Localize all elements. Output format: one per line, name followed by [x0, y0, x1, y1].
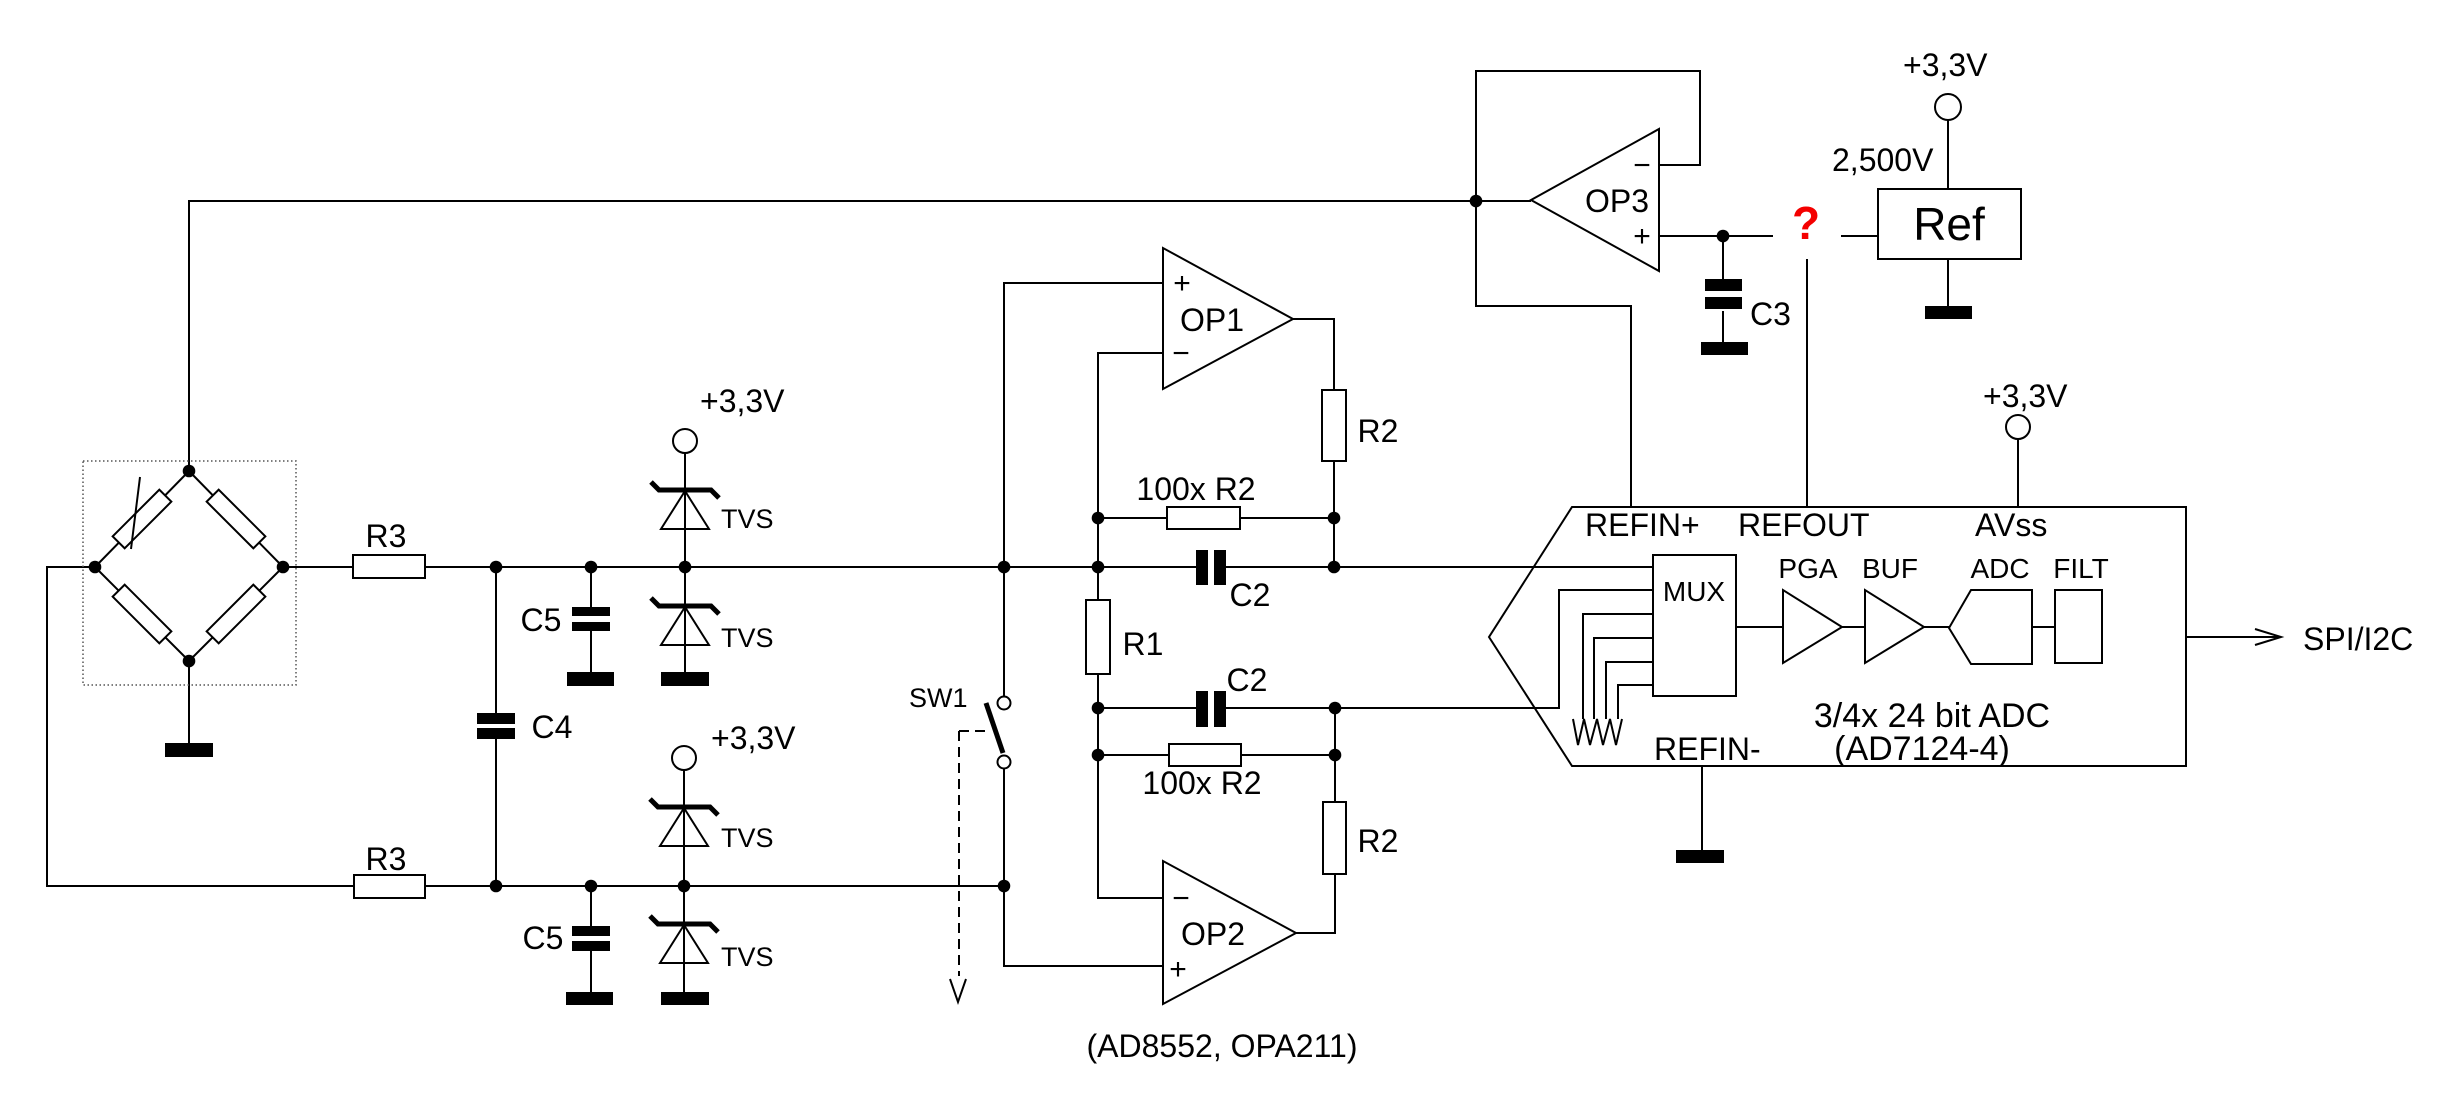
ground C5 lower — [566, 992, 613, 1005]
op-amp OP2 — [1163, 861, 1296, 1004]
wire lower C2 left lead — [1098, 707, 1198, 709]
wire C3 top lead — [1722, 236, 1724, 279]
box FILT — [2055, 590, 2102, 663]
wire C5 upper top lead — [590, 567, 592, 607]
ground TVS upper — [661, 672, 709, 686]
wire REFOUT vertical — [1806, 259, 1808, 507]
wire TVS lower chain vertical — [683, 770, 685, 993]
wire OP3 noninverting input to question node — [1659, 235, 1773, 237]
wire OP3 output to bridge top (net EXC+) — [189, 201, 1531, 471]
svg-text:100x R2: 100x R2 — [1136, 471, 1255, 507]
switch SW1 dashed control line — [958, 731, 960, 976]
svg-text:C5: C5 — [523, 920, 564, 956]
svg-text:(AD8552, OPA211): (AD8552, OPA211) — [1087, 1028, 1358, 1064]
svg-text:TVS: TVS — [721, 504, 774, 534]
strain gauge variable stroke — [131, 477, 140, 549]
bridge resistor top-right — [207, 490, 266, 549]
svg-text:TVS: TVS — [721, 823, 774, 853]
wire question node to Ref box — [1841, 235, 1878, 237]
svg-text:ADC: ADC — [1970, 553, 2029, 584]
wire R2 upper to top signal line — [1333, 461, 1335, 567]
junction R2 upper line — [1328, 561, 1341, 574]
wire OP1 output to R2 — [1293, 319, 1334, 390]
node bridge right — [277, 561, 290, 574]
wire ADC to FILT — [2033, 626, 2055, 628]
resistor R3 bottom — [354, 875, 425, 898]
junction C3 node — [1717, 230, 1730, 243]
capacitor C5 upper plates — [572, 607, 610, 616]
svg-text:R3: R3 — [366, 518, 407, 554]
svg-text:REFIN-: REFIN- — [1654, 731, 1761, 767]
svg-text:R2: R2 — [1358, 413, 1399, 449]
svg-text:SPI/I2C: SPI/I2C — [2303, 621, 2413, 657]
wire MUX input 6 — [1618, 685, 1653, 719]
junction lower C2 right — [1329, 702, 1342, 715]
junction TVS lower — [678, 880, 691, 893]
node bridge bottom — [183, 655, 196, 668]
svg-text:+3,3V: +3,3V — [711, 720, 796, 756]
svg-text:FILT: FILT — [2053, 553, 2108, 584]
svg-text:TVS: TVS — [721, 623, 774, 653]
svg-text:REFOUT: REFOUT — [1738, 507, 1870, 543]
junction 100xR2 upper left — [1092, 512, 1105, 525]
resistor R2 lower — [1323, 802, 1346, 874]
junction TVS upper — [679, 561, 692, 574]
switch SW1 blade — [986, 703, 1003, 753]
svg-text:OP1: OP1 — [1180, 302, 1244, 338]
junction C4 top — [490, 561, 503, 574]
capacitor C5 lower plates — [572, 926, 610, 936]
unused MUX input squiggle terminators — [1573, 719, 1622, 745]
svg-text:(AD7124-4): (AD7124-4) — [1834, 730, 2010, 768]
wire R1 bottom to OP2 inverting input — [1098, 674, 1163, 898]
svg-text:C4: C4 — [532, 709, 573, 745]
svg-text:MUX: MUX — [1663, 576, 1726, 607]
wire PGA to BUF — [1842, 626, 1865, 628]
svg-text:+3,3V: +3,3V — [1983, 378, 2068, 414]
wire TVS upper chain vertical — [684, 453, 686, 673]
svg-text:R2: R2 — [1358, 823, 1399, 859]
wire C5 upper ground lead — [590, 631, 592, 673]
capacitor C3 plates — [1705, 279, 1742, 291]
svg-text:?: ? — [1792, 197, 1820, 249]
ground C3 — [1701, 342, 1748, 355]
amplifier PGA — [1783, 590, 1842, 663]
svg-text:C2: C2 — [1227, 662, 1268, 698]
resistor R1 — [1086, 600, 1110, 674]
box Ref voltage reference — [1878, 189, 2021, 259]
wire BUF to ADC — [1924, 626, 1949, 628]
svg-text:−: − — [1172, 882, 1190, 915]
resistor 100xR2 lower — [1169, 744, 1241, 766]
wire bridge left node to bottom signal row (net SIG-) — [47, 567, 354, 886]
supply terminal +3,3V lower TVS — [672, 746, 696, 770]
junction C4 bottom — [490, 880, 503, 893]
capacitor C2 upper plates — [1196, 550, 1208, 585]
svg-text:−: − — [1633, 149, 1651, 182]
ground TVS lower — [661, 992, 709, 1005]
wire R2 lower to lower C2 line — [1334, 708, 1336, 802]
wire SW1 top terminal — [1003, 567, 1005, 697]
svg-text:+: + — [1173, 267, 1191, 300]
wire C5 lower top lead — [590, 886, 592, 926]
switch SW1 actuation dashed link — [959, 730, 991, 732]
junction R1 top line — [1092, 561, 1105, 574]
wire top signal line C2 to MUX — [1221, 566, 1653, 568]
wire MUX input 3 — [1583, 614, 1653, 719]
wire SW1 bottom to OP2 noninverting input — [1004, 768, 1163, 966]
arrowhead SPI/I2C — [2255, 629, 2281, 645]
svg-text:SW1: SW1 — [909, 683, 968, 713]
wire C4 top lead — [495, 567, 497, 713]
node bridge left — [89, 561, 102, 574]
ground C5 upper — [567, 672, 614, 686]
resistor R3 top — [353, 555, 425, 578]
svg-text:OP3: OP3 — [1585, 183, 1649, 219]
svg-text:100x R2: 100x R2 — [1142, 765, 1261, 801]
wire 100xR2 lower left lead — [1098, 754, 1169, 756]
bridge strain-gauge resistor top-left — [113, 490, 172, 549]
svg-text:C2: C2 — [1230, 577, 1271, 613]
ground REFIN- — [1676, 850, 1724, 863]
switch SW1 dashed arrow head — [950, 979, 966, 1002]
junction SW1 top line — [998, 561, 1011, 574]
supply terminal +3,3V upper TVS — [673, 429, 697, 453]
wire 100xR2 upper left lead — [1098, 517, 1167, 519]
wire bridge edge top-right — [189, 471, 283, 567]
wire Ref ground lead — [1947, 259, 1949, 306]
svg-text:R1: R1 — [1123, 626, 1164, 662]
junction 100xR2 lower right — [1329, 749, 1342, 762]
TVS diode D2 (upper pair, below line) — [651, 598, 719, 645]
wire C5 lower ground lead — [590, 951, 592, 993]
wire Ref supply lead — [1947, 119, 1949, 189]
svg-text:Ref: Ref — [1913, 198, 1985, 250]
ADC block U1 AD7124-4 outline — [1489, 507, 2186, 766]
ground Ref — [1925, 306, 1972, 319]
svg-text:+: + — [1169, 953, 1187, 986]
capacitor C4 plates — [477, 713, 515, 724]
wire top signal line R3 to C2 (net SIG+) — [425, 566, 1198, 568]
wire bottom signal line R3 to SW1 — [425, 885, 1004, 887]
junction lower C2 left — [1092, 702, 1105, 715]
wire SPI/I2C output — [2186, 636, 2279, 638]
svg-text:+: + — [1633, 220, 1651, 253]
svg-text:REFIN+: REFIN+ — [1585, 507, 1700, 543]
wire bridge edge top-left — [95, 471, 189, 567]
switch SW1 bottom contact — [998, 756, 1011, 769]
wire C4 bottom lead — [495, 739, 497, 886]
capacitor C2 lower plates — [1196, 691, 1208, 727]
node bridge top — [183, 465, 196, 478]
svg-text:AVss: AVss — [1975, 507, 2047, 543]
supply terminal +3,3V AVss — [2006, 415, 2030, 439]
resistor R2 upper — [1322, 390, 1346, 461]
wire OP2 output to R2 lower — [1296, 874, 1335, 933]
bridge outline dotted box — [83, 461, 296, 685]
svg-text:2,500V: 2,500V — [1832, 142, 1934, 178]
wire lower C2 line right to MUX pin 2 — [1221, 590, 1653, 708]
op-amp OP1 — [1163, 248, 1293, 389]
TVS diode D1 (upper pair, above line) — [651, 482, 719, 529]
svg-text:+3,3V: +3,3V — [700, 383, 785, 419]
switch SW1 top contact — [998, 697, 1011, 710]
wire MUX input 5 — [1606, 662, 1653, 719]
wire bridge bottom to ground — [188, 661, 190, 744]
svg-text:R3: R3 — [366, 841, 407, 877]
supply terminal +3,3V Ref — [1935, 94, 1961, 120]
svg-text:BUF: BUF — [1862, 553, 1918, 584]
op-amp OP3 — [1531, 129, 1659, 271]
svg-text:+3,3V: +3,3V — [1903, 47, 1988, 83]
bridge resistor bottom-left — [113, 585, 172, 644]
wire MUX to PGA — [1736, 626, 1783, 628]
junction 100xR2 lower left — [1092, 749, 1105, 762]
svg-text:C5: C5 — [521, 602, 562, 638]
wire 100xR2 upper right lead — [1240, 517, 1334, 519]
junction C5 lower — [585, 880, 598, 893]
ground bridge — [165, 743, 213, 757]
wire MUX input 4 — [1594, 638, 1653, 719]
junction 100xR2 upper right — [1328, 512, 1341, 525]
wire AVss supply lead — [2017, 439, 2019, 507]
resistor 100xR2 upper — [1167, 507, 1240, 529]
TVS diode D4 (lower pair, below line) — [650, 916, 718, 963]
TVS diode D3 (lower pair, above line) — [650, 799, 718, 846]
wire OP1 noninverting input — [1004, 283, 1163, 567]
wire REFIN- to ground — [1701, 766, 1703, 851]
wire bridge edge bottom-left — [95, 567, 189, 661]
wire C3 ground lead — [1722, 311, 1724, 343]
junction OP3 output feedback — [1470, 195, 1483, 208]
wire OP1 inverting input to R1 top — [1098, 353, 1163, 600]
junction C5 upper — [585, 561, 598, 574]
box MUX — [1653, 555, 1736, 696]
bridge resistor bottom-right — [207, 585, 266, 644]
svg-text:−: − — [1172, 337, 1190, 370]
wire OP3 feedback loop and REFIN+ lead — [1476, 71, 1700, 507]
wire 100xR2 lower right lead — [1241, 754, 1335, 756]
wire bridge right node to R3 — [283, 566, 353, 568]
svg-text:TVS: TVS — [721, 942, 774, 972]
junction SW1 bottom line — [998, 880, 1011, 893]
svg-text:PGA: PGA — [1778, 553, 1837, 584]
block ADC core — [1949, 590, 2032, 664]
svg-text:OP2: OP2 — [1181, 916, 1245, 952]
wire bridge edge bottom-right — [189, 567, 283, 661]
amplifier BUF — [1865, 590, 1924, 663]
svg-text:C3: C3 — [1750, 296, 1791, 332]
